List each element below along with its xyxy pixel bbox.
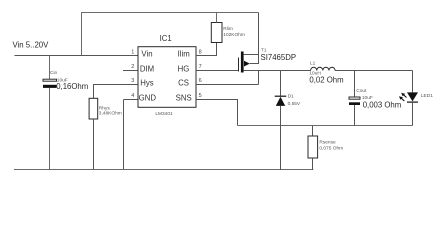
svg-text:1: 1: [131, 49, 134, 55]
wire top Vin rail: [81, 12, 259, 14]
transistor T1 bulk lead: [250, 55, 259, 64]
wire Rlim top to rail: [216, 13, 218, 23]
wire SNS to feedback rail: [196, 100, 238, 126]
svg-text:L1: L1: [310, 61, 316, 67]
op-amp U1 IC body LM3401: [138, 47, 196, 108]
svg-text:0,02 Ohm: 0,02 Ohm: [309, 76, 343, 85]
LED LED1 bottom wire: [412, 103, 414, 126]
wire feedback rail: [238, 125, 413, 127]
resistor Rlim: [211, 23, 222, 43]
svg-text:Vin: Vin: [141, 50, 152, 59]
svg-text:D1: D1: [288, 94, 294, 100]
svg-text:0,003 Ohm: 0,003 Ohm: [363, 100, 402, 109]
svg-text:4: 4: [131, 93, 134, 99]
svg-text:Vin 5..20V: Vin 5..20V: [13, 41, 50, 50]
diode D1 cathode bar: [275, 96, 287, 97]
LED LED1 body: [407, 92, 418, 101]
LED LED1 emission arrows: [403, 95, 406, 98]
LED LED1 cathode bar: [407, 102, 418, 103]
resistor Rhys: [89, 98, 98, 119]
diode D1 top wire: [280, 71, 282, 96]
wire switch node right of L1: [335, 70, 412, 72]
wire Rhys bottom: [93, 119, 95, 170]
svg-text:5: 5: [199, 93, 202, 99]
wire Cin top branch: [49, 56, 51, 80]
svg-text:LM3401: LM3401: [155, 111, 173, 117]
svg-text:SNS: SNS: [176, 93, 192, 102]
svg-text:HG: HG: [178, 64, 190, 73]
capacitor Cout bottom wire: [354, 105, 356, 126]
svg-text:DIM: DIM: [140, 64, 154, 73]
wire pin 3 Hys: [93, 84, 138, 86]
wire Rsense bottom: [312, 158, 314, 170]
svg-text:Rsense: Rsense: [319, 140, 336, 146]
wire Cin bottom branch: [49, 88, 51, 170]
svg-text:0,55V: 0,55V: [288, 101, 301, 107]
wire pin 4 GND: [124, 99, 139, 101]
wire switch node left of L1: [244, 70, 311, 72]
wire pin 2 DIM stub: [123, 70, 138, 72]
svg-text:CS: CS: [178, 79, 189, 88]
svg-text:102KOhm: 102KOhm: [223, 32, 245, 38]
svg-text:GND: GND: [139, 93, 157, 102]
wire pin 7 HG to gate: [196, 70, 239, 72]
svg-text:Rhys: Rhys: [99, 105, 111, 111]
svg-text:LED1: LED1: [421, 93, 433, 99]
wire pin 8 Ilim to Rlim: [196, 43, 217, 56]
svg-text:0,075 Ohm: 0,075 Ohm: [319, 146, 343, 152]
capacitor C Cin: [43, 79, 57, 81]
svg-text:Ilim: Ilim: [178, 50, 190, 59]
svg-text:6: 6: [199, 78, 202, 84]
svg-text:2: 2: [131, 64, 134, 70]
wire drain riser to top rail: [258, 13, 260, 55]
svg-text:3,48KOhm: 3,48KOhm: [99, 111, 122, 117]
wire ground rail: [14, 169, 313, 171]
wire CS sense: [196, 71, 259, 85]
svg-text:3: 3: [131, 78, 134, 84]
svg-text:8: 8: [199, 49, 202, 55]
svg-text:0,16Ohm: 0,16Ohm: [56, 82, 88, 91]
transistor T1 drain lead: [244, 54, 259, 56]
svg-text:Cout: Cout: [356, 88, 367, 94]
capacitor Cout top wire: [354, 71, 356, 98]
resistor Rsense top wire: [312, 126, 314, 137]
wire Rhys top: [93, 85, 95, 99]
svg-text:IC1: IC1: [160, 34, 172, 43]
transistor T1 bulk arrow: [244, 61, 250, 67]
transistor Q T1 SI7465DP gate plate: [238, 58, 240, 72]
inductor L1: [311, 67, 335, 70]
svg-text:SI7465DP: SI7465DP: [261, 53, 297, 62]
transistor T1 channel bar: [241, 52, 244, 73]
svg-text:7: 7: [199, 64, 202, 70]
svg-text:Hys: Hys: [140, 79, 154, 88]
wire GND down: [123, 100, 125, 171]
LED LED1 top wire: [412, 71, 414, 93]
svg-text:Cin: Cin: [50, 70, 58, 76]
capacitor Cout plates: [349, 97, 360, 99]
resistor Rsense: [308, 136, 318, 158]
wire riser from Vin wire to top rail: [81, 13, 83, 57]
svg-text:Rlim: Rlim: [223, 26, 233, 32]
diode D1 bottom wire: [280, 106, 282, 170]
wire Vin input to pin 1: [15, 55, 139, 57]
diode D1 body: [276, 97, 285, 106]
